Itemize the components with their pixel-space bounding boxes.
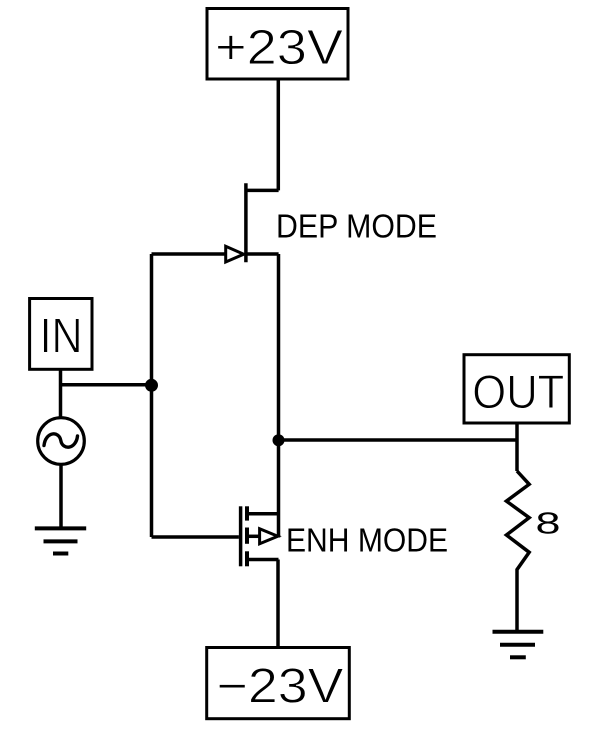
svg-text:8: 8 xyxy=(536,506,561,541)
svg-text:−23V: −23V xyxy=(217,659,344,714)
svg-text:DEP MODE: DEP MODE xyxy=(276,209,437,246)
svg-text:IN: IN xyxy=(40,308,83,363)
svg-text:OUT: OUT xyxy=(472,366,564,419)
svg-text:+23V: +23V xyxy=(215,20,343,75)
svg-text:ENH MODE: ENH MODE xyxy=(286,522,448,559)
